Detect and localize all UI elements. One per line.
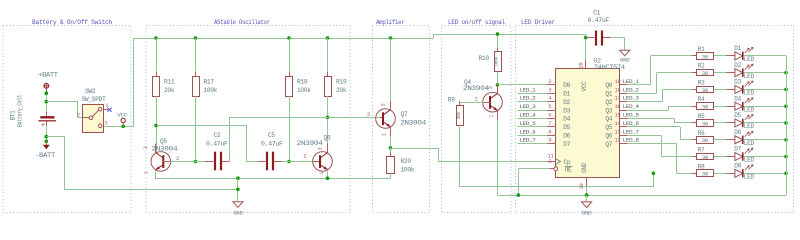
wire R5 to D5 xyxy=(714,122,735,124)
wire R7 to D7 xyxy=(714,156,735,158)
svg-text:LED_4: LED_4 xyxy=(623,103,640,110)
wire LED row 7 xyxy=(661,156,696,158)
svg-text:LED_5: LED_5 xyxy=(623,112,640,119)
svg-text:5: 5 xyxy=(548,103,551,110)
node rail row 6 xyxy=(784,138,788,142)
resistor R17 xyxy=(195,38,197,76)
svg-text:10: 10 xyxy=(579,184,585,190)
resistor R1 xyxy=(692,55,696,57)
node VCC rail junctions xyxy=(154,36,158,40)
ground U2 xyxy=(586,195,588,202)
svg-text:0.47uF: 0.47uF xyxy=(261,141,283,148)
svg-text:D6: D6 xyxy=(734,129,741,136)
wire OE to GND line xyxy=(518,169,520,195)
U2 pin 3 D1 xyxy=(547,93,556,95)
svg-text:30: 30 xyxy=(702,104,709,111)
wire R4 to D4 xyxy=(714,106,735,108)
power flag VCC at switch xyxy=(121,118,125,122)
svg-text:3: 3 xyxy=(318,147,324,150)
wire D2 cathode to rail xyxy=(744,72,786,74)
wire D4 cathode to rail xyxy=(744,106,786,108)
svg-text:BT1: BT1 xyxy=(10,110,17,121)
resistor R10 xyxy=(497,34,499,52)
LED D2 xyxy=(727,72,735,74)
wire battery top xyxy=(46,93,48,112)
wire C5 to Q6 base xyxy=(274,161,282,163)
svg-text:30: 30 xyxy=(702,70,709,77)
svg-text:16: 16 xyxy=(614,103,620,110)
svg-text:Q6: Q6 xyxy=(324,134,331,141)
wire R10 to Q4 collector xyxy=(497,72,499,94)
wire riser to LED row 3 xyxy=(662,89,664,101)
wire D6 cathode to rail xyxy=(744,139,786,141)
svg-text:74HCT574: 74HCT574 xyxy=(594,64,626,71)
svg-text:100k: 100k xyxy=(494,56,500,66)
node emitter rail junctions xyxy=(236,176,240,180)
U2 pin 9 D7 xyxy=(547,143,556,145)
svg-text:D3: D3 xyxy=(563,107,570,114)
U2 pin 19 Q0 xyxy=(619,84,627,86)
svg-text:2N3904: 2N3904 xyxy=(297,140,324,147)
wire R17 to Q5 base node xyxy=(195,96,197,162)
LED D4 xyxy=(727,106,735,108)
svg-text:Q5: Q5 xyxy=(605,124,612,131)
switch pin 1 stub xyxy=(104,109,108,111)
svg-text:D8: D8 xyxy=(734,162,741,169)
no-connect X on pin 1 xyxy=(107,108,111,112)
svg-text:3: 3 xyxy=(143,146,149,149)
wire Q7 emitter to CP xyxy=(391,149,556,162)
svg-text:LED Driver: LED Driver xyxy=(521,19,555,26)
wire riser to LED row 4 xyxy=(668,106,670,110)
svg-text:Q2: Q2 xyxy=(605,99,612,106)
wire LED row 8 xyxy=(677,173,697,175)
svg-text:D2: D2 xyxy=(563,99,570,106)
transistor Q5 2N3904 xyxy=(151,152,171,172)
svg-text:LED_1: LED_1 xyxy=(623,78,640,85)
svg-text:+: + xyxy=(41,122,45,129)
U2 pin 4 D2 xyxy=(547,101,556,103)
LED D1 xyxy=(727,55,735,57)
wire D8 cathode to rail xyxy=(744,173,786,175)
node battery top junctions xyxy=(45,91,49,95)
wire R6 to D6 xyxy=(714,139,735,141)
svg-text:2N3904: 2N3904 xyxy=(151,146,178,153)
svg-text:LED_1: LED_1 xyxy=(520,86,537,93)
svg-text:R19: R19 xyxy=(336,79,347,86)
svg-text:LED: LED xyxy=(744,90,755,97)
wire LED row 5 xyxy=(674,122,696,124)
U2 pin 8 D6 xyxy=(547,135,556,137)
wire R18 to Q6 base node xyxy=(289,96,291,162)
svg-text:GND: GND xyxy=(233,210,243,217)
power flag +BATT xyxy=(44,83,49,88)
svg-text:D7: D7 xyxy=(734,146,741,153)
svg-text:0.47uF: 0.47uF xyxy=(206,141,228,148)
wire LED cathode rail xyxy=(786,56,788,195)
wire R19 to Q6 collector xyxy=(327,96,329,152)
svg-text:LED_3: LED_3 xyxy=(520,103,537,110)
svg-text:SW2: SW2 xyxy=(85,88,96,95)
svg-text:-BATT: -BATT xyxy=(35,152,56,159)
wire C1 to GND flag xyxy=(603,37,611,39)
wire riser to LED row 1 xyxy=(650,56,652,85)
svg-text:1: 1 xyxy=(144,171,150,174)
svg-text:LED_2: LED_2 xyxy=(520,95,537,102)
svg-text:R11: R11 xyxy=(164,79,175,86)
wire D5 cathode to rail xyxy=(744,122,786,124)
svg-text:R2: R2 xyxy=(698,63,705,70)
svg-text:2: 2 xyxy=(548,78,551,85)
node VCC junction at switch xyxy=(121,125,125,129)
svg-text:LED_4: LED_4 xyxy=(520,112,537,119)
wire riser to LED row 8 xyxy=(676,144,678,174)
node rail row 3 xyxy=(784,88,788,92)
node rail row 4 xyxy=(784,104,788,108)
node -BATT joins GND xyxy=(236,188,240,192)
svg-text:20k: 20k xyxy=(456,111,462,119)
U2 pin 15 Q4 xyxy=(619,118,627,120)
svg-text:Q1: Q1 xyxy=(605,91,612,98)
svg-text:3: 3 xyxy=(104,120,107,127)
svg-text:1: 1 xyxy=(381,133,387,136)
svg-text:R6: R6 xyxy=(698,130,705,137)
U2 pin 13 Q6 xyxy=(619,135,627,137)
wire LED row 3 xyxy=(662,89,696,91)
U2 pin 18 Q1 xyxy=(619,93,627,95)
svg-text:AStable Oscillator: AStable Oscillator xyxy=(214,19,270,26)
svg-text:3: 3 xyxy=(548,86,551,93)
wire Q5 emitter xyxy=(155,170,157,178)
svg-text:30: 30 xyxy=(702,171,709,178)
U2 pin 16 Q3 xyxy=(619,110,627,112)
wire -BATT to bottom rail xyxy=(47,137,238,190)
svg-text:VCC: VCC xyxy=(117,112,127,119)
wire R8 to D8 xyxy=(714,173,735,175)
svg-text:LED: LED xyxy=(744,173,755,180)
svg-text:1: 1 xyxy=(488,115,494,118)
wire riser to LED row 5 xyxy=(674,119,676,123)
resistor R3 xyxy=(692,89,696,91)
svg-text:GND: GND xyxy=(620,57,630,64)
svg-text:R3: R3 xyxy=(698,79,705,86)
svg-text:R9: R9 xyxy=(448,97,455,104)
wire LED row 6 xyxy=(680,139,696,141)
wire emitter rail to GND xyxy=(156,178,391,180)
node Q6 base junction xyxy=(287,160,291,164)
resistor R6 xyxy=(692,139,696,141)
svg-text:30: 30 xyxy=(702,87,709,94)
svg-text:20k: 20k xyxy=(336,87,347,94)
svg-text:15: 15 xyxy=(614,112,620,119)
wire GND drop oscillator xyxy=(237,178,239,202)
svg-text:2: 2 xyxy=(176,155,179,162)
LED D3 xyxy=(727,89,735,91)
svg-text:C5: C5 xyxy=(268,132,275,139)
node LED_8 feedback junction xyxy=(652,172,656,176)
wire Q6 emitter xyxy=(327,170,329,178)
svg-text:LED_8: LED_8 xyxy=(623,137,640,144)
svg-text:LED: LED xyxy=(744,140,755,147)
wire Q4 emitter to GND line xyxy=(497,120,499,195)
wire D3 cathode to rail xyxy=(744,89,786,91)
wire Q7 collector to VCC rail xyxy=(390,38,392,101)
svg-text:100k: 100k xyxy=(297,87,311,94)
svg-text:2: 2 xyxy=(303,153,306,160)
svg-text:30: 30 xyxy=(702,53,709,60)
svg-text:7: 7 xyxy=(548,120,551,127)
svg-text:GND: GND xyxy=(581,162,588,173)
node battery bottom junctions xyxy=(45,135,49,139)
svg-text:D2: D2 xyxy=(734,62,741,69)
capacitor C1 0.47uF xyxy=(584,36,588,40)
ground flag near C1 xyxy=(620,50,630,56)
section box: Battery & On/Off Switch xyxy=(3,26,131,213)
ground oscillator xyxy=(233,202,243,208)
node Q6 collector junction xyxy=(326,116,330,120)
wire VCC rail step xyxy=(433,34,435,38)
wire Q5 base stub xyxy=(162,161,170,163)
node rail row 8 xyxy=(784,171,788,175)
section box: LED on/off signal xyxy=(442,26,512,213)
svg-text:LED on/off signal: LED on/off signal xyxy=(448,19,505,26)
svg-text:100k: 100k xyxy=(401,167,415,174)
svg-text:D1: D1 xyxy=(734,45,741,52)
svg-text:20k: 20k xyxy=(164,87,175,94)
battery BT1 xyxy=(40,116,54,118)
section box: AStable Oscillator xyxy=(146,26,350,213)
svg-text:6: 6 xyxy=(548,112,551,119)
svg-text:R17: R17 xyxy=(204,79,215,86)
wire D7 cathode to rail xyxy=(744,156,786,158)
resistor R5 xyxy=(692,122,696,124)
svg-text:LED: LED xyxy=(744,56,755,63)
svg-text:8: 8 xyxy=(548,128,551,135)
U2 pin 17 Q2 xyxy=(619,101,627,103)
node rail row 5 xyxy=(784,121,788,125)
svg-text:Cp: Cp xyxy=(564,159,571,166)
svg-text:3: 3 xyxy=(381,103,387,106)
wire battery bottom xyxy=(46,121,48,125)
svg-text:19: 19 xyxy=(614,78,620,85)
node Q7 emitter junction xyxy=(389,146,393,150)
svg-text:D4: D4 xyxy=(563,116,570,123)
IC U2 74HCT574 xyxy=(556,69,620,178)
switch pin 3 to VCC xyxy=(104,126,134,128)
wire LED row 1 xyxy=(651,55,696,57)
svg-text:Q3: Q3 xyxy=(605,107,612,114)
svg-text:Battery_Cell: Battery_Cell xyxy=(17,94,24,127)
LED D7 xyxy=(727,156,735,158)
node rail row 2 xyxy=(784,71,788,75)
capacitor C5 0.47uF xyxy=(266,152,268,171)
svg-text:14: 14 xyxy=(614,120,621,127)
svg-text:LED_6: LED_6 xyxy=(623,120,640,127)
svg-text:2N3904: 2N3904 xyxy=(463,85,490,92)
svg-text:C2: C2 xyxy=(214,132,221,139)
wire VCC riser from switch xyxy=(133,38,135,126)
transistor Q6 2N3904 xyxy=(313,152,333,172)
svg-text:R5: R5 xyxy=(698,113,705,120)
U2 pin 2 D0 xyxy=(547,84,556,86)
svg-text:LED_2: LED_2 xyxy=(623,86,640,93)
U2 pin 14 Q5 xyxy=(619,126,627,128)
wire C2 to Q6 collector line xyxy=(222,161,229,163)
svg-text:D0: D0 xyxy=(563,82,570,89)
svg-text:Battery & On/Off Switch: Battery & On/Off Switch xyxy=(32,19,112,26)
node Q5 collector branch xyxy=(154,124,158,128)
svg-text:3: 3 xyxy=(488,86,494,89)
svg-text:Q5: Q5 xyxy=(160,138,167,145)
U2 pin 11 CP xyxy=(547,161,556,163)
wire R3 to D3 xyxy=(714,89,735,91)
wire cross-coupling to C5 xyxy=(157,126,259,162)
svg-text:R20: R20 xyxy=(401,158,412,165)
svg-text:LED: LED xyxy=(744,73,755,80)
svg-text:LED_6: LED_6 xyxy=(520,128,537,135)
svg-text:VCC: VCC xyxy=(581,81,588,92)
svg-text:Amplifier: Amplifier xyxy=(376,19,405,26)
svg-text:0.47uF: 0.47uF xyxy=(588,17,610,24)
svg-text:30: 30 xyxy=(702,120,709,127)
svg-text:LED: LED xyxy=(744,106,755,113)
svg-text:D4: D4 xyxy=(734,95,741,102)
svg-text:Q6: Q6 xyxy=(605,133,612,140)
svg-text:+BATT: +BATT xyxy=(38,72,58,79)
svg-text:LED: LED xyxy=(744,157,755,164)
svg-text:20: 20 xyxy=(578,63,584,69)
section box: Amplifier xyxy=(373,26,430,213)
wire to switch pin 2 xyxy=(47,102,83,118)
svg-text:LED_3: LED_3 xyxy=(623,95,640,102)
svg-text:R1: R1 xyxy=(698,46,705,53)
resistor R18 xyxy=(289,38,291,76)
svg-text:Q0: Q0 xyxy=(605,82,612,89)
wire Q4 base to R9 xyxy=(484,102,492,104)
transistor Q7 2N3904 xyxy=(376,109,396,129)
wire riser to LED row 7 xyxy=(661,135,663,156)
node OE junction xyxy=(517,193,521,197)
wire R2 to D2 xyxy=(714,72,735,74)
svg-text:12: 12 xyxy=(614,137,620,144)
svg-text:100k: 100k xyxy=(204,87,218,94)
svg-text:18: 18 xyxy=(614,86,620,93)
svg-text:GND: GND xyxy=(582,210,592,217)
wire riser to LED row 6 xyxy=(680,127,682,140)
U2 pin 1 OE xyxy=(518,168,549,170)
svg-text:D1: D1 xyxy=(563,91,570,98)
svg-text:2: 2 xyxy=(77,112,80,119)
svg-text:13: 13 xyxy=(614,128,620,135)
section box: LED Driver xyxy=(516,26,794,213)
resistor R11 xyxy=(156,38,158,76)
power flag -BATT xyxy=(43,145,50,150)
U2 VCC pin 20 xyxy=(585,34,587,60)
svg-text:Q7: Q7 xyxy=(605,141,612,148)
svg-text:D3: D3 xyxy=(734,79,741,86)
svg-text:Q4: Q4 xyxy=(605,116,612,123)
svg-text:D6: D6 xyxy=(563,133,570,140)
svg-text:R18: R18 xyxy=(297,79,308,86)
wire Q4 collector to D0 xyxy=(498,84,556,86)
svg-text:Q7: Q7 xyxy=(401,111,408,118)
resistor R19 xyxy=(327,38,329,76)
svg-text:30: 30 xyxy=(702,154,709,161)
node U2 GND junction xyxy=(585,193,589,197)
svg-text:17: 17 xyxy=(614,95,620,102)
svg-text:R4: R4 xyxy=(698,96,705,103)
wire R20 bottom to emitter rail xyxy=(390,174,392,179)
resistor R7 xyxy=(692,156,696,158)
svg-text:30: 30 xyxy=(702,137,709,144)
wire R1 to D1 xyxy=(714,55,735,57)
svg-text:2: 2 xyxy=(475,95,478,102)
wire riser to LED row 2 xyxy=(656,73,658,94)
LED D8 xyxy=(727,173,735,175)
svg-text:LED_7: LED_7 xyxy=(520,137,537,144)
svg-text:R7: R7 xyxy=(698,147,705,154)
wire VCC rail left segment xyxy=(134,38,434,40)
U2 pin 5 D3 xyxy=(547,110,556,112)
capacitor C2 0.47uF xyxy=(196,161,206,163)
svg-text:R8: R8 xyxy=(698,163,705,170)
wire R9 to LED_8 feedback xyxy=(460,126,654,187)
U2 pin 12 Q7 xyxy=(619,143,627,145)
wire Q7 emitter xyxy=(390,136,392,148)
wire LED row 2 xyxy=(657,72,697,74)
svg-text:LED_5: LED_5 xyxy=(520,120,537,127)
resistor R20 xyxy=(390,148,392,156)
node Q5 base junction xyxy=(194,160,198,164)
svg-text:9: 9 xyxy=(548,137,551,144)
node rail row 7 xyxy=(784,155,788,159)
svg-text:2N3904: 2N3904 xyxy=(400,119,427,126)
U2 pin 6 D4 xyxy=(547,118,556,120)
svg-text:D5: D5 xyxy=(563,124,570,131)
resistor R2 xyxy=(692,72,696,74)
U2 GND pin 10 xyxy=(586,178,588,186)
switch SW2 SW_SPDT xyxy=(83,105,104,133)
resistor R4 xyxy=(692,106,696,108)
svg-text:SW_SPDT: SW_SPDT xyxy=(82,96,107,103)
svg-text:C1: C1 xyxy=(593,9,600,16)
resistor R8 xyxy=(692,173,696,175)
wire D1 cathode to rail xyxy=(744,55,786,57)
U2 pin 7 D5 xyxy=(547,126,556,128)
LED D5 xyxy=(727,122,735,124)
svg-text:1: 1 xyxy=(319,172,325,175)
svg-text:2: 2 xyxy=(367,111,370,118)
svg-text:D7: D7 xyxy=(563,141,570,148)
wire LED row 4 xyxy=(668,106,696,108)
LED D6 xyxy=(727,139,735,141)
svg-text:D5: D5 xyxy=(734,112,741,119)
wire R11 to Q5 collector xyxy=(156,96,158,152)
svg-text:OE: OE xyxy=(565,167,572,174)
transistor Q4 2N3904 xyxy=(483,92,503,112)
svg-text:LED: LED xyxy=(744,123,755,130)
wire ground bus bottom xyxy=(498,195,787,197)
wire VCC rail right segment xyxy=(433,34,585,36)
svg-text:R10: R10 xyxy=(479,55,490,62)
node D0 junction xyxy=(496,83,500,87)
resistor R9 xyxy=(459,101,461,105)
svg-text:LED_7: LED_7 xyxy=(623,128,640,135)
